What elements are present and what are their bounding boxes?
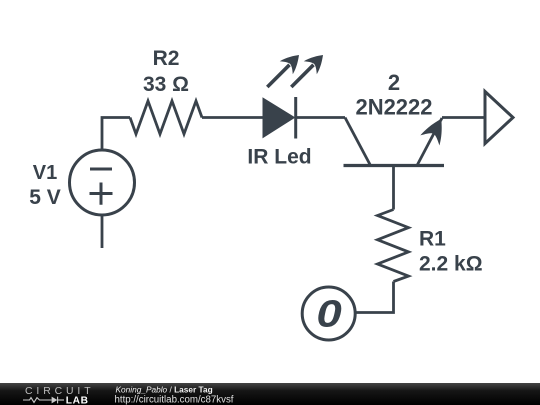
V1 plus sign [90,183,113,205]
wire R1 to node 0 [356,282,394,313]
svg-text:LAB: LAB [66,395,89,405]
resistor R1 [378,210,409,282]
wire V1 bottom lead [101,215,104,248]
svg-text:R1: R1 [419,228,446,251]
V1 minus sign [90,168,112,171]
svg-text:33 Ω: 33 Ω [143,73,189,96]
LED D1 triangle [264,99,294,137]
svg-text:Koning_Pablo / Laser Tag: Koning_Pablo / Laser Tag [116,385,213,395]
wire Q1 emitter to output flag [442,116,485,119]
transistor Q1 emitter arrow [420,114,451,146]
voltage source V1 [70,150,135,215]
resistor R2 [130,101,202,134]
svg-text:0: 0 [316,292,341,335]
svg-text:R2: R2 [153,47,180,70]
transistor Q1 emitter lead [417,118,442,166]
wire R2 to LED anode [202,116,264,119]
wire V1 top lead to R2 [102,118,130,151]
output flag (node pointer) [485,92,513,144]
svg-text:2: 2 [388,70,400,95]
svg-text:2.2 kΩ: 2.2 kΩ [419,253,483,276]
LED emission arrow 2 [291,48,329,87]
CircuitLab logo diode triangle [52,397,58,404]
wire Q1 base to R1 [392,166,395,210]
LED cathode bar [294,97,297,139]
svg-text:5 V: 5 V [29,186,61,209]
svg-text:http://circuitlab.com/c87kvsf: http://circuitlab.com/c87kvsf [115,395,234,405]
wire LED cathode to Q1 collector [296,116,345,119]
CircuitLab logo waveform [23,397,64,404]
transistor Q1 collector lead [345,118,371,166]
svg-text:IR Led: IR Led [247,146,311,169]
svg-text:V1: V1 [33,162,57,184]
transistor Q1 base bar [344,164,445,167]
svg-text:2N2222: 2N2222 [355,95,432,120]
LED emission arrow 1 [267,48,305,87]
node 0 circle [302,287,355,340]
